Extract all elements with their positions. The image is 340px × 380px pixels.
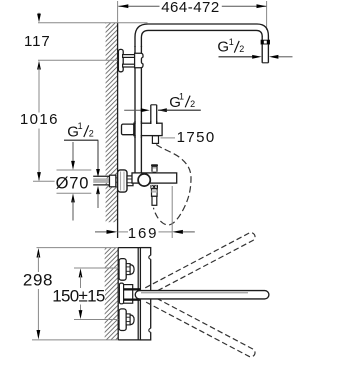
svg-text:150±15: 150±15 [52, 287, 105, 306]
spout union block [124, 285, 133, 304]
solid spout (plan) [135, 291, 269, 299]
supply pipe into wall [93, 176, 110, 185]
top supply boss: nut [126, 264, 130, 275]
bottom supply boss: nut [126, 314, 130, 325]
bracket collar on riser [135, 53, 143, 67]
extension line left (wall plane, for 464-472) [117, 1, 119, 23]
outlet cylinder [152, 189, 158, 197]
svg-text:1016: 1016 [20, 111, 59, 128]
dimension 1016 [20, 61, 59, 182]
underline + leader of supply G1/2 [64, 140, 100, 208]
diverter knob [151, 164, 158, 173]
dimension 464-472 [118, 0, 266, 16]
top supply boss: dome [130, 265, 134, 275]
svg-text:1750: 1750 [177, 129, 216, 146]
head pipe (shower head connection) [262, 36, 268, 63]
svg-text:2: 2 [190, 99, 195, 109]
mixer body and spout bar [132, 173, 177, 183]
supply union fitting [110, 175, 116, 187]
hand shower holder block [134, 123, 162, 135]
svg-text:1: 1 [78, 121, 83, 131]
wall hatch band [106, 23, 118, 238]
shower arm pipe (top horizontal with bends) [135, 24, 268, 47]
dimension 169 [95, 186, 195, 242]
label 1750 with leader [161, 129, 216, 146]
wall hatch band (plan) [105, 248, 119, 341]
svg-text:169: 169 [128, 225, 158, 242]
hose nipple below holder [152, 136, 158, 144]
dashed spout (lower swivel position) [145, 294, 256, 358]
housing notch bottom [149, 328, 152, 332]
label G 1/2 (hand shower) [169, 91, 195, 111]
svg-text:1: 1 [179, 91, 184, 101]
riser lines through holder [135, 121, 157, 138]
svg-text:117: 117 [24, 33, 51, 50]
298 extension lines [37, 247, 119, 249]
mixer inlet nut [127, 176, 133, 186]
extension line: wall bracket center / 117 bottom [38, 59, 118, 61]
label G 1/2 (shower head) [217, 37, 244, 56]
svg-text:298: 298 [23, 271, 53, 290]
top supply boss: escutcheon [119, 259, 126, 281]
wall bracket escutcheon [118, 49, 123, 71]
svg-text:G: G [217, 39, 229, 56]
mixer housing (plan) [140, 248, 150, 340]
dimension 117 [24, 13, 51, 50]
mixer escutcheon O70 [118, 170, 127, 192]
leader for G 1/2 head [219, 55, 293, 59]
svg-text:Ø70: Ø70 [56, 175, 90, 193]
hand shower holder clamp (left part) [122, 124, 134, 135]
label G 1/2 (supply, left) [67, 121, 94, 141]
bottom supply boss: dome [130, 315, 134, 325]
hand shower connection stub G1/2 [151, 105, 157, 124]
svg-text:2: 2 [239, 44, 244, 54]
extension line right (head pipe center, for 464-472) [266, 1, 268, 30]
housing notch top [149, 255, 152, 259]
wall bracket arms [123, 55, 136, 67]
spout base bands [124, 288, 141, 290]
bottom supply boss: escutcheon [119, 309, 126, 331]
mounting plate (plan) [118, 248, 140, 340]
dimension O70 [56, 142, 92, 221]
knurled nut below mixer [150, 185, 158, 189]
pipe pass-through gaps in holder [136, 122, 156, 137]
150 +/-15 extension lines [74, 267, 120, 269]
svg-text:464-472: 464-472 [161, 0, 220, 16]
riser pipe [135, 46, 141, 173]
dimension 150 +/- 15 [52, 268, 105, 319]
svg-text:1: 1 [229, 37, 234, 47]
dashed spout (upper swivel position) [145, 231, 256, 295]
leader/arrows for hand shower G1/2 [124, 108, 201, 112]
outlet tube [152, 196, 157, 205]
middle escutcheon (spout base) [119, 283, 123, 304]
extension line: top of arm / 117 top [38, 22, 148, 24]
cartridge circle [138, 174, 150, 186]
dimension 298 [23, 248, 53, 340]
head pipe G1/2 fitting [261, 40, 269, 44]
shower hose (dashed loop) [154, 145, 191, 225]
svg-text:2: 2 [89, 129, 94, 139]
